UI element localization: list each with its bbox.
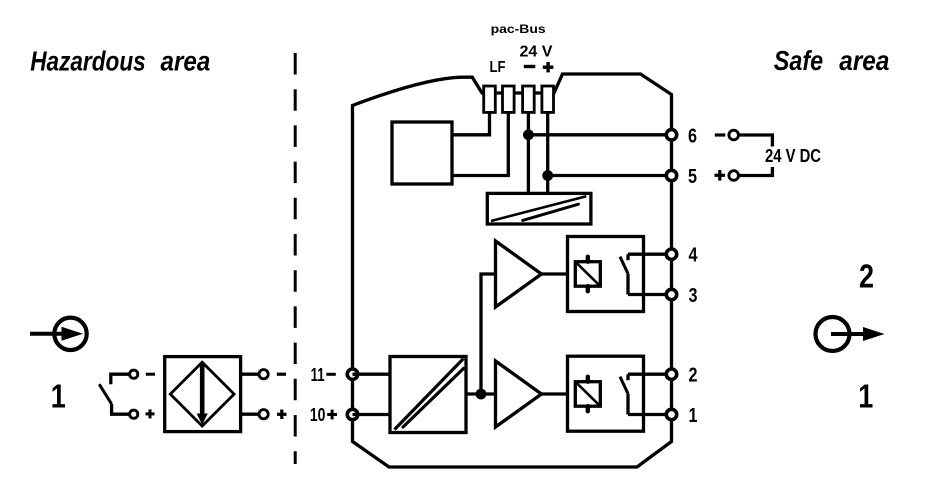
wire pin2 to microcontroller box: [452, 112, 508, 176]
field switch contact: [99, 370, 138, 418]
pac-Bus pin 4 (24V plus): [542, 86, 554, 112]
wire A2 to relay K2 coil: [542, 392, 576, 395]
output signal symbol (arrow out): [816, 317, 885, 351]
svg-text:4: 4: [689, 245, 699, 267]
relay K2 contact: [620, 374, 628, 414]
terminal 5: [666, 170, 676, 180]
24VDC supply minus circle: [729, 130, 739, 140]
svg-text:24 V DC: 24 V DC: [765, 146, 821, 166]
terminal 1: [666, 409, 676, 419]
terminal 6: [666, 130, 676, 140]
svg-text:10: 10: [310, 405, 326, 425]
wire contact K2 to terminal 1: [628, 413, 672, 416]
pac-Bus pin 1 (LF): [484, 86, 496, 112]
amplifier A1: [496, 241, 542, 307]
transmitter output plus circle: [259, 410, 268, 419]
wire A1 to relay K1 coil: [542, 272, 576, 275]
wire minus circle to bracket: [739, 135, 773, 147]
junction dot at isolation output: [476, 389, 487, 400]
input signal symbol (current source with arrow): [30, 318, 87, 350]
power supply box: [487, 193, 591, 224]
wire pin1 to microcontroller box: [452, 112, 490, 135]
svg-text:area: area: [161, 45, 211, 76]
relay K1 coil: [575, 257, 600, 292]
wire terminal 11 to isolation box: [353, 373, 391, 376]
24VDC supply plus sign: [715, 170, 726, 181]
svg-text:2: 2: [689, 365, 698, 387]
wire contact K1 to terminal 4: [628, 253, 672, 256]
plus sign over pin 4: [543, 62, 554, 72]
wire 24V minus to terminal 6: [528, 133, 671, 136]
svg-text:3: 3: [689, 285, 698, 307]
terminal 11: [347, 369, 357, 379]
terminal 3: [666, 289, 676, 299]
terminal 2: [666, 369, 676, 379]
transmitter plus sign: [277, 410, 287, 420]
terminal 4: [666, 249, 676, 259]
text Safe area: [774, 45, 890, 76]
plus sign after 10: [327, 410, 337, 420]
svg-text:1: 1: [858, 378, 873, 415]
minus sign after 11: [326, 373, 336, 376]
junction dot pin3 / terminal 6: [523, 129, 534, 140]
relay K2 box: [568, 356, 644, 431]
svg-text:LF: LF: [490, 59, 506, 76]
wire plus circle to bracket: [739, 167, 773, 176]
wire riser junction to amplifier A1: [481, 274, 496, 394]
relay K1 contact: [620, 254, 628, 294]
terminal 10: [347, 409, 357, 419]
24VDC supply plus circle: [729, 171, 739, 181]
svg-text:11: 11: [311, 365, 325, 385]
wire contact K2 to terminal 2: [628, 373, 672, 376]
minus sign over pin 3: [524, 65, 536, 68]
hazardous/safe boundary dashed line: [294, 53, 297, 464]
svg-text:1: 1: [51, 378, 66, 415]
svg-text:Safe: Safe: [774, 45, 823, 76]
svg-text:1: 1: [689, 405, 698, 427]
transmitter minus sign: [277, 373, 286, 376]
transmitter output minus circle: [259, 370, 268, 379]
text Hazardous area: [30, 45, 210, 76]
junction dot pin4 / terminal 5: [542, 170, 553, 181]
wire pin3 down to power supply: [527, 112, 530, 194]
svg-text:pac-Bus: pac-Bus: [491, 22, 546, 36]
svg-text:area: area: [839, 45, 889, 76]
amplifier A2: [496, 361, 542, 427]
switch plus sign: [146, 409, 155, 418]
microcontroller box: [392, 122, 452, 184]
wire contact K1 to terminal 3: [628, 293, 672, 296]
wire terminal 10 to isolation box: [353, 413, 391, 416]
24VDC supply minus sign: [715, 133, 726, 136]
svg-text:2: 2: [859, 258, 874, 295]
isolation barrier box: [390, 357, 466, 433]
switch minus sign: [146, 373, 155, 376]
wire 24V plus to terminal 5: [548, 174, 672, 177]
svg-text:6: 6: [688, 125, 697, 147]
pac-Bus pin 3 (24V minus): [523, 86, 535, 112]
wire transmitter to minus circle: [241, 373, 259, 376]
pac-Bus pin 2: [503, 86, 515, 112]
relay K1 box: [568, 237, 644, 312]
wire pin4 down to power supply: [546, 112, 549, 194]
wire transmitter to plus circle: [241, 413, 259, 416]
svg-text:24 V: 24 V: [520, 43, 553, 60]
wire isolation box output to amplifier A2: [466, 392, 496, 395]
device outline: [353, 74, 672, 467]
relay K2 coil: [575, 377, 600, 412]
transmitter box: [165, 357, 241, 432]
svg-text:5: 5: [688, 166, 697, 188]
svg-text:Hazardous: Hazardous: [30, 45, 146, 76]
